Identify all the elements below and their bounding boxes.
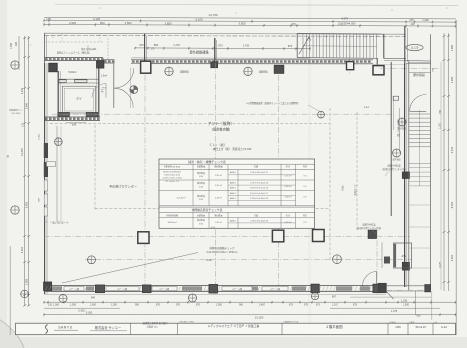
west wall frames xyxy=(44,180,47,191)
svg-text:4.58 m²: 4.58 m² xyxy=(215,197,222,200)
svg-text:3,150: 3,150 xyxy=(450,146,454,153)
svg-text:1,750: 1,750 xyxy=(243,44,250,48)
svg-text:1.78×0.9×0.44=1.08: 1.78×0.9×0.44=1.08 xyxy=(250,219,269,222)
left grid bubble B xyxy=(11,206,19,214)
svg-text:3,850: 3,850 xyxy=(239,22,246,26)
grid bubble top 1 xyxy=(165,67,173,75)
west interior partition lines xyxy=(56,126,58,222)
page curl shadow bottom-left xyxy=(0,318,25,348)
svg-text:11,120: 11,120 xyxy=(411,46,419,50)
grid line vertical G3 xyxy=(278,75,280,285)
svg-text:1/50: 1/50 xyxy=(395,325,401,329)
setting-out marker on H1 xyxy=(318,111,325,118)
interior column P1 xyxy=(138,232,149,244)
svg-text:870: 870 xyxy=(156,304,161,307)
column C2 top xyxy=(211,62,218,68)
svg-text:0.71 m²: 0.71 m² xyxy=(285,174,292,177)
east stair outer walls xyxy=(408,61,410,291)
bottom marker circle on wall xyxy=(311,293,318,300)
svg-text:940: 940 xyxy=(91,296,96,299)
PS room west line xyxy=(381,243,383,269)
svg-text:1,400: 1,400 xyxy=(422,18,429,22)
top exterior wall (west part) xyxy=(44,57,103,59)
svg-text:1.78×1.85×0.6=1.97: 1.78×1.85×0.6=1.97 xyxy=(250,171,269,174)
bottom dim line row2 xyxy=(44,301,456,303)
svg-text:本仕上げ（仮） 天井高さ=2,790: 本仕上げ（仮） 天井高さ=2,790 xyxy=(213,147,252,151)
svg-text:967: 967 xyxy=(332,296,337,299)
svg-text:8,000: 8,000 xyxy=(450,201,454,208)
svg-text:S.904 1.00m 0.30: S.904 1.00m 0.30 xyxy=(164,175,181,177)
EV north door band xyxy=(58,78,99,80)
svg-text:1,000: 1,000 xyxy=(53,304,60,307)
svg-text:予災受けカウンター: 予災受けカウンター xyxy=(109,184,137,189)
svg-text:W.800×1.8(×H)50 B: W.800×1.8(×H)50 B xyxy=(163,171,181,174)
canopy line band A xyxy=(44,33,406,34)
svg-text:ABH-1: ABH-1 xyxy=(230,219,237,222)
setting-out marker H3-left xyxy=(88,256,96,264)
svg-text:W-2 1800: W-2 1800 xyxy=(12,113,22,115)
svg-text:870: 870 xyxy=(288,44,293,48)
stair landing door arc xyxy=(410,95,427,112)
svg-text:12@350=4,050: 12@350=4,050 xyxy=(338,21,356,25)
right dimension lines xyxy=(443,33,445,291)
EV south door rects xyxy=(58,112,70,116)
SE continuation lines xyxy=(386,285,431,287)
svg-text:1,500: 1,500 xyxy=(403,304,410,307)
svg-text:A-12: A-12 xyxy=(441,325,447,329)
svg-text:ABH-1: ABH-1 xyxy=(230,197,237,200)
SE corner diagonal xyxy=(386,291,394,299)
partition dashed line xyxy=(50,122,330,124)
svg-text:4,375: 4,375 xyxy=(341,17,348,21)
svg-text:排煙有効面積チェック: 排煙有効面積チェック xyxy=(209,246,235,250)
svg-text:3,640: 3,640 xyxy=(26,102,29,109)
west door sill xyxy=(47,162,56,167)
EV corner column NE xyxy=(97,61,104,68)
balcony dashed edge xyxy=(44,41,105,43)
company logo xyxy=(45,325,47,334)
east stair treads upper xyxy=(409,113,430,115)
west wall marker xyxy=(55,138,63,146)
svg-text:106.66 m²: 106.66 m² xyxy=(167,221,176,224)
svg-text:屋外避難通路: 屋外避難通路 xyxy=(189,50,209,55)
partition dashed vertical 2 xyxy=(356,112,358,230)
svg-text:1.78×0.9×0.44=1.08: 1.78×0.9×0.44=1.08 xyxy=(250,181,269,184)
svg-text:1,500: 1,500 xyxy=(70,304,77,307)
EV south hatch band xyxy=(44,116,100,118)
sheet left border (bottom part) xyxy=(9,246,11,335)
svg-text:4,300: 4,300 xyxy=(450,254,454,261)
svg-text:アジト（仮称）: アジト（仮称） xyxy=(208,121,234,126)
svg-text:6.3m: 6.3m xyxy=(206,259,212,262)
svg-text:ABH-1: ABH-1 xyxy=(230,192,237,195)
grid line horizontal H1 xyxy=(52,113,391,115)
svg-text:600: 600 xyxy=(72,122,77,126)
svg-text:'06.12.15: '06.12.15 xyxy=(415,325,426,329)
svg-text:1,985: 1,985 xyxy=(450,44,454,51)
svg-text:DATE: DATE xyxy=(410,321,416,324)
east wall lower xyxy=(404,64,406,288)
svg-text:5,300: 5,300 xyxy=(86,311,93,314)
svg-text:970: 970 xyxy=(176,304,181,307)
svg-text:3,850: 3,850 xyxy=(165,21,172,25)
SW corner column xyxy=(44,282,52,291)
svg-text:975: 975 xyxy=(304,304,309,307)
top stair mid rail xyxy=(303,45,377,48)
grid line vertical G4 xyxy=(376,230,378,294)
svg-text:5.00m²: 5.00m² xyxy=(68,70,76,74)
top dimension line overall 14,750 xyxy=(44,17,456,19)
svg-text:5,450: 5,450 xyxy=(26,201,29,208)
door target marker xyxy=(130,86,138,94)
door arc bottom right xyxy=(362,271,376,286)
bottom right dim vertical xyxy=(415,291,417,315)
svg-text:2,425: 2,425 xyxy=(78,309,85,312)
svg-text:2,150: 2,150 xyxy=(21,87,24,94)
grid line vertical G1 xyxy=(144,75,146,285)
shelf units in south wall xyxy=(64,286,84,290)
shaft box right xyxy=(368,230,376,238)
top dimension line tier-1 xyxy=(44,21,456,23)
top dimension line tier-2 xyxy=(44,25,456,27)
svg-text:4.58 m²: 4.58 m² xyxy=(285,196,292,199)
svg-text:1,500: 1,500 xyxy=(10,42,13,49)
svg-text:101.46 m²: 101.46 m² xyxy=(176,197,185,200)
reception counter dashed xyxy=(94,125,96,210)
top door track dashed xyxy=(107,38,109,59)
vestibule wall xyxy=(113,64,115,109)
title block frame xyxy=(16,323,456,335)
svg-text:２階平面図: ２階平面図 xyxy=(326,324,344,329)
svg-text:1,175: 1,175 xyxy=(173,43,180,47)
SE wall end column xyxy=(378,283,386,292)
svg-text:1,150: 1,150 xyxy=(440,122,442,128)
svg-text:1,180: 1,180 xyxy=(450,76,454,83)
top exterior wall (middle) xyxy=(131,57,310,59)
column C3 top xyxy=(274,65,284,73)
svg-text:ABH-1: ABH-1 xyxy=(230,171,237,174)
top stair band xyxy=(297,32,384,35)
svg-text:1,500: 1,500 xyxy=(125,21,132,25)
svg-text:（仮飲食店舗）: （仮飲食店舗） xyxy=(210,127,232,132)
svg-text:2,487: 2,487 xyxy=(259,304,266,307)
svg-text:株式会社 サンユー: 株式会社 サンユー xyxy=(95,325,121,330)
svg-text:6.04 2/6.7/6.0×61m＝CPM Gx: 6.04 2/6.7/6.0×61m＝CPM Gx xyxy=(207,251,239,254)
dust xyxy=(99,7,100,8)
svg-text:13,150: 13,150 xyxy=(255,316,264,320)
svg-text:ABH-1: ABH-1 xyxy=(230,181,237,184)
svg-text:300: 300 xyxy=(15,41,18,46)
svg-text:872: 872 xyxy=(316,304,321,307)
grid bubble stair upper xyxy=(398,118,406,126)
svg-text:1,017: 1,017 xyxy=(332,304,339,307)
svg-text:8.5m: 8.5m xyxy=(342,185,345,190)
corridor dimension line xyxy=(135,47,310,50)
grid bubble stair xyxy=(393,149,401,157)
svg-text:140: 140 xyxy=(411,23,416,26)
top-right wall lines to stair strip xyxy=(384,58,406,60)
bottom grid bubble 1 xyxy=(59,295,67,303)
east stair mid rail xyxy=(419,110,421,186)
grid bubble top 2 xyxy=(244,67,252,75)
svg-text:採光・換気・排煙チェック表: 採光・換気・排煙チェック表 xyxy=(188,159,226,164)
east wall column 2 xyxy=(402,262,409,270)
svg-text:SCALE: SCALE xyxy=(390,321,397,324)
east wall upper xyxy=(390,62,392,216)
south exterior wall xyxy=(44,285,386,287)
svg-text:1.5m²: 1.5m² xyxy=(101,75,108,78)
EV shaft walls xyxy=(57,71,59,117)
svg-text:1,350: 1,350 xyxy=(39,133,41,139)
svg-text:屋外階段: 屋外階段 xyxy=(413,72,425,77)
svg-text:175: 175 xyxy=(151,47,156,50)
left bottom grid bubble xyxy=(21,290,29,298)
interior column P2 xyxy=(272,230,283,242)
top exterior wall (west transition) xyxy=(103,59,115,61)
east stair treads mid xyxy=(409,167,430,169)
leader diagonal xyxy=(62,253,198,284)
svg-text:700: 700 xyxy=(439,109,442,114)
svg-text:872: 872 xyxy=(289,304,294,307)
east wall column 1 xyxy=(402,172,409,178)
west exterior wall xyxy=(44,63,46,294)
svg-text:-P.S: -P.S xyxy=(401,254,406,258)
east stair landing line xyxy=(409,163,430,165)
sheet faint top border xyxy=(55,4,458,5)
svg-text:14,350: 14,350 xyxy=(21,148,24,156)
EV dim 600 xyxy=(66,122,86,124)
svg-text:排煙無窓居室チェック表: 排煙無窓居室チェック表 xyxy=(192,208,223,212)
grid dash at stair xyxy=(349,33,351,75)
bottom grid bubble 2 xyxy=(189,294,197,302)
svg-text:1,985: 1,985 xyxy=(26,278,29,285)
EV corner column NW xyxy=(49,63,57,71)
svg-text:0.60 m²: 0.60 m² xyxy=(285,221,292,224)
door arc right of EV xyxy=(92,84,106,98)
svg-text:0.82 m²: 0.82 m² xyxy=(285,185,292,188)
double swing door lower arc xyxy=(114,88,133,107)
svg-text:ＣＬ× （仮）: ＣＬ× （仮） xyxy=(209,142,227,147)
grid line horizontal H3 xyxy=(85,258,412,260)
svg-text:950: 950 xyxy=(135,304,140,307)
EV car inner box xyxy=(62,86,95,113)
check table xyxy=(159,159,315,228)
left grid bubble A xyxy=(11,61,19,69)
svg-text:875: 875 xyxy=(353,304,358,307)
svg-text:0.29×0.9×0.44=1.07: 0.29×0.9×0.44=1.07 xyxy=(250,192,269,195)
svg-text:870: 870 xyxy=(196,304,201,307)
svg-text:PROJECT TITLE: PROJECT TITLE xyxy=(180,322,195,324)
grid line horizontal H2 xyxy=(44,235,410,237)
svg-text:0.78×0.9×0.44=1.08: 0.78×0.9×0.44=1.08 xyxy=(250,197,269,200)
setting-out marker H3-right xyxy=(333,255,342,264)
svg-text:1.89×0.9×0.47=1.08: 1.89×0.9×0.47=1.08 xyxy=(250,187,269,190)
svg-text:-C1 ×3.0m- -C1: -C1 ×3.0m- -C1 xyxy=(165,180,180,183)
south wall columns xyxy=(96,285,105,293)
svg-text:14,750: 14,750 xyxy=(208,13,218,17)
east stair treads lower sparse xyxy=(409,204,430,206)
sheet right border xyxy=(455,20,457,335)
svg-text:600: 600 xyxy=(100,21,105,25)
double swing door upper arc xyxy=(114,68,134,88)
top stair up arrow xyxy=(299,37,309,54)
wall stub verticals xyxy=(44,33,46,63)
bottom dim line row3 xyxy=(44,307,120,309)
interior column P3 xyxy=(313,230,325,242)
svg-text:ABH-1: ABH-1 xyxy=(230,187,237,190)
column C1 top xyxy=(141,61,151,73)
svg-text:1,500: 1,500 xyxy=(111,304,118,307)
svg-text:875: 875 xyxy=(218,44,223,48)
svg-text:375: 375 xyxy=(409,18,414,22)
svg-text:SANYU: SANYU xyxy=(58,325,72,329)
svg-text:1,500: 1,500 xyxy=(216,304,223,307)
grid line vertical G2 xyxy=(215,63,217,294)
svg-text:5.81 m²: 5.81 m² xyxy=(215,221,222,224)
bottom dim total line xyxy=(44,314,456,316)
svg-text:1,600: 1,600 xyxy=(90,304,97,307)
label oval 11,120 xyxy=(406,44,423,50)
corner column hollow xyxy=(373,66,384,75)
svg-text:5,100: 5,100 xyxy=(196,17,203,21)
svg-text:E.V: E.V xyxy=(77,97,82,101)
stair east wall stub xyxy=(383,34,385,59)
svg-text:No.: No. xyxy=(435,322,438,324)
svg-text:DRAWING TITLE: DRAWING TITLE xyxy=(284,321,299,324)
svg-text:2,925: 2,925 xyxy=(69,21,76,25)
column C4 top xyxy=(347,62,354,70)
PS room xyxy=(394,243,412,268)
svg-text:800: 800 xyxy=(154,43,159,47)
svg-text:3.67 m²: 3.67 m² xyxy=(215,184,222,187)
east stair top landing lines xyxy=(409,61,431,63)
svg-text:175: 175 xyxy=(46,17,51,21)
svg-text:675: 675 xyxy=(139,43,144,47)
svg-text:215: 215 xyxy=(48,304,53,307)
svg-text:3.67 m²: 3.67 m² xyxy=(215,174,222,177)
svg-text:1,375: 1,375 xyxy=(391,310,398,313)
west wall solid segment xyxy=(44,143,48,158)
svg-text:960: 960 xyxy=(239,304,244,307)
partition dashed vertical xyxy=(329,108,331,260)
vertical dim in plan xyxy=(399,108,401,152)
svg-text:375: 375 xyxy=(291,22,296,26)
svg-text:4,500: 4,500 xyxy=(21,246,24,253)
svg-text:-1.87m×1.55m -1.63m: -1.87m×1.55m -1.63m xyxy=(162,177,182,180)
left dimension lines xyxy=(18,36,20,70)
svg-text:1.1o: 1.1o xyxy=(364,105,370,109)
svg-text:メディカルスクエア ４丁目ＰＪ 新築工事: メディカルスクエア ４丁目ＰＪ 新築工事 xyxy=(208,324,260,328)
